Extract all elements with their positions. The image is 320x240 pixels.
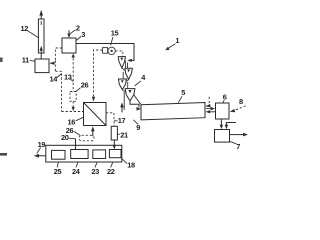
svg-text:20: 20 xyxy=(61,133,69,142)
box 25 xyxy=(52,150,66,159)
box 23 xyxy=(93,150,106,159)
hx bottom up arrow xyxy=(91,126,95,136)
hx box 16 xyxy=(84,103,107,126)
cyclone c2 xyxy=(125,68,132,79)
box 7 xyxy=(215,130,230,143)
svg-text:13: 13 xyxy=(64,73,72,82)
label 3 xyxy=(76,30,85,41)
cyclone c1 xyxy=(118,57,125,68)
chimney 12 xyxy=(38,19,44,53)
svg-text:23: 23 xyxy=(91,167,99,176)
chimney inner up arrow xyxy=(40,46,43,53)
label 14 xyxy=(50,74,62,84)
dashed 14 line: box3 left to box11 arrow and down xyxy=(55,48,62,71)
label 20 xyxy=(61,133,76,142)
svg-text:18: 18 xyxy=(127,161,135,170)
wire box3 right to cyclone c1 xyxy=(76,44,134,61)
box 11 xyxy=(35,59,49,73)
kiln 5 xyxy=(141,103,205,120)
dashed 14 vertical xyxy=(55,71,61,111)
pump 15 xyxy=(103,47,116,54)
dashed stub arrow into kiln right top xyxy=(205,97,210,108)
label 1 arrow xyxy=(165,36,179,50)
arrow box 6 to kiln xyxy=(206,110,216,113)
dashed 17 line from hx to box 21 xyxy=(106,113,114,127)
label 11 xyxy=(22,56,35,65)
svg-text:1: 1 xyxy=(175,36,179,45)
svg-text:17: 17 xyxy=(118,116,126,125)
label 16 xyxy=(68,117,84,126)
box 6 xyxy=(216,103,230,119)
svg-text:24: 24 xyxy=(72,167,81,176)
wire right inlet to box7 xyxy=(225,123,236,130)
label 7 xyxy=(230,141,240,150)
cyclone c3 xyxy=(118,79,126,90)
svg-text:26: 26 xyxy=(81,81,89,90)
duct c3-c4 xyxy=(122,82,127,92)
box 3 xyxy=(62,38,76,53)
label 8 dashed arrow xyxy=(230,97,246,112)
svg-text:12: 12 xyxy=(21,24,29,33)
dashed stub arrow below box 26 xyxy=(72,101,75,111)
label 5 xyxy=(178,88,185,103)
label 22 xyxy=(107,162,115,176)
label 21 xyxy=(117,130,128,139)
label 26 lower xyxy=(66,126,80,136)
wire box11 to chimney xyxy=(40,53,42,59)
wire box6 to box7 xyxy=(220,119,223,129)
label 15 xyxy=(111,29,119,46)
svg-text:22: 22 xyxy=(107,167,115,176)
svg-text:5: 5 xyxy=(181,88,185,97)
svg-text:9: 9 xyxy=(136,123,140,132)
riser arrow at kiln inlet xyxy=(120,92,124,112)
svg-text:25: 25 xyxy=(54,167,62,176)
c4 outlet to kiln xyxy=(130,95,141,110)
arrow into c1 duct xyxy=(127,59,132,62)
svg-text:11: 11 xyxy=(22,56,29,65)
chimney top arrow xyxy=(39,10,43,19)
svg-text:2: 2 xyxy=(76,24,80,33)
box 7 out arrow xyxy=(230,133,249,137)
box 24 xyxy=(71,150,88,159)
label 4 xyxy=(135,73,147,86)
label 2 xyxy=(70,24,80,34)
duct c2-c3 xyxy=(123,72,128,82)
label 6 xyxy=(223,93,227,103)
label 12 xyxy=(21,24,39,38)
box 21 xyxy=(111,126,117,140)
svg-text:19: 19 xyxy=(38,140,46,149)
conveyor frame 18 xyxy=(46,145,122,162)
cyclone c4 xyxy=(125,89,135,101)
arrow kiln to box 6 xyxy=(206,107,215,110)
edge artifact left lower xyxy=(0,153,7,156)
label 26 upper xyxy=(76,81,88,92)
out arrow 19 xyxy=(34,140,46,158)
svg-text:14: 14 xyxy=(50,74,59,83)
dashed 13 line below box 3 xyxy=(72,53,75,91)
wire box21 to box22 xyxy=(113,140,116,150)
dashed pump right to c1 top xyxy=(115,51,122,57)
label 17 xyxy=(114,116,126,125)
label 9 xyxy=(133,120,140,132)
svg-text:7: 7 xyxy=(236,142,240,151)
label 24 xyxy=(72,162,81,176)
edge artifact left upper xyxy=(0,58,3,63)
svg-text:15: 15 xyxy=(111,29,119,38)
dashed to hx 16 left xyxy=(62,111,84,113)
svg-text:3: 3 xyxy=(81,30,85,39)
dashed box 26 upper xyxy=(70,92,76,102)
label 18 xyxy=(122,159,135,170)
svg-text:21: 21 xyxy=(120,130,128,139)
wire capsule area down to box 24 xyxy=(75,139,77,150)
arrow into box 11 right xyxy=(49,62,54,65)
duct c1-c2 xyxy=(122,61,128,71)
capsule to hx wire xyxy=(92,135,94,136)
label 25 xyxy=(54,162,62,176)
svg-text:6: 6 xyxy=(223,93,227,102)
fuel capsule 20 xyxy=(79,135,94,141)
svg-text:8: 8 xyxy=(239,97,243,106)
dashed pump left down to hx 16 xyxy=(92,50,103,102)
arrow 2 into box 3 top xyxy=(67,30,70,38)
box 22 xyxy=(109,150,121,158)
label 13 xyxy=(64,73,73,82)
label 23 xyxy=(91,162,99,176)
